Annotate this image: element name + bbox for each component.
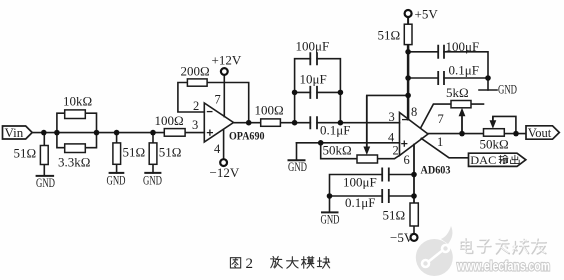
svg-text:51Ω: 51Ω bbox=[378, 28, 401, 43]
svg-text:8: 8 bbox=[411, 105, 417, 119]
svg-text:2: 2 bbox=[246, 256, 254, 272]
svg-text:OPA690: OPA690 bbox=[229, 129, 265, 143]
svg-text:3: 3 bbox=[192, 118, 198, 132]
svg-text:0.1μF: 0.1μF bbox=[320, 123, 350, 138]
svg-text:7: 7 bbox=[438, 112, 444, 126]
svg-text:0.1μF: 0.1μF bbox=[345, 195, 375, 210]
svg-text:51Ω: 51Ω bbox=[123, 145, 146, 160]
svg-text:100μF: 100μF bbox=[343, 175, 377, 190]
svg-text:−5V: −5V bbox=[390, 230, 414, 245]
svg-text:+5V: +5V bbox=[415, 7, 439, 22]
svg-text:7: 7 bbox=[215, 93, 221, 107]
svg-text:50kΩ: 50kΩ bbox=[480, 137, 509, 152]
svg-text:Vin: Vin bbox=[5, 125, 24, 140]
svg-text:100Ω: 100Ω bbox=[255, 103, 284, 118]
svg-text:50kΩ: 50kΩ bbox=[323, 143, 352, 158]
svg-text:10kΩ: 10kΩ bbox=[63, 94, 92, 109]
svg-text:3: 3 bbox=[389, 110, 395, 124]
svg-text:3.3kΩ: 3.3kΩ bbox=[58, 155, 90, 170]
svg-text:100μF: 100μF bbox=[446, 39, 480, 54]
svg-text:1: 1 bbox=[437, 135, 443, 149]
svg-text:+12V: +12V bbox=[212, 53, 242, 68]
svg-text:GND: GND bbox=[143, 173, 162, 188]
svg-text:2: 2 bbox=[193, 99, 199, 113]
svg-text:0.1μF: 0.1μF bbox=[449, 62, 479, 77]
svg-text:−12V: −12V bbox=[210, 165, 240, 180]
svg-text:GND: GND bbox=[498, 82, 517, 97]
svg-text:GND: GND bbox=[321, 212, 340, 227]
svg-text:www.elecfans.com: www.elecfans.com bbox=[456, 259, 550, 274]
svg-text:6: 6 bbox=[404, 153, 410, 167]
svg-text:GND: GND bbox=[288, 159, 307, 174]
svg-text:200Ω: 200Ω bbox=[181, 64, 210, 79]
svg-text:AD603: AD603 bbox=[421, 163, 451, 177]
svg-text:51Ω: 51Ω bbox=[159, 145, 182, 160]
svg-text:10μF: 10μF bbox=[300, 72, 327, 87]
svg-text:GND: GND bbox=[36, 175, 55, 190]
svg-text:4: 4 bbox=[388, 131, 395, 145]
svg-text:2: 2 bbox=[393, 144, 399, 158]
svg-text:5kΩ: 5kΩ bbox=[446, 85, 469, 100]
svg-text:100Ω: 100Ω bbox=[155, 113, 184, 128]
svg-text:4: 4 bbox=[214, 142, 221, 156]
svg-text:100μF: 100μF bbox=[296, 39, 330, 54]
svg-text:DAC: DAC bbox=[470, 153, 496, 167]
svg-text:51Ω: 51Ω bbox=[383, 208, 406, 223]
svg-text:51Ω: 51Ω bbox=[14, 146, 37, 161]
svg-text:Vout: Vout bbox=[528, 125, 552, 140]
svg-text:GND: GND bbox=[107, 173, 126, 188]
